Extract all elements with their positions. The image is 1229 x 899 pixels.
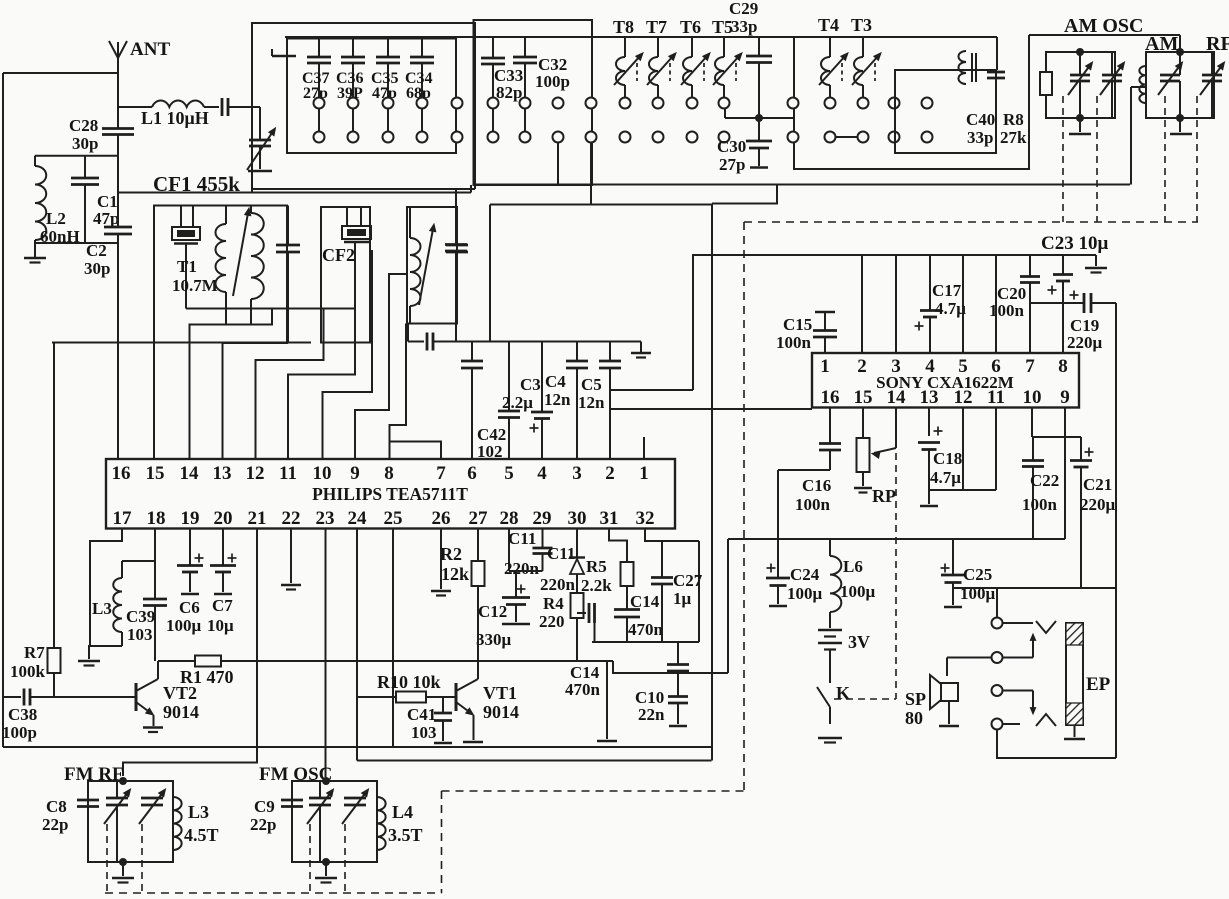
label R2 12k bbox=[440, 544, 469, 584]
svg-text:4.7μ: 4.7μ bbox=[930, 468, 961, 487]
svg-text:C18: C18 bbox=[933, 449, 962, 468]
inductor L2 bbox=[35, 156, 46, 243]
label C4 12n bbox=[544, 372, 571, 409]
amp pin top 2 bbox=[857, 356, 867, 377]
trimmer RF bbox=[1200, 52, 1225, 118]
pin number bottom 27 bbox=[469, 508, 489, 529]
svg-text:22: 22 bbox=[282, 508, 301, 529]
ground AM OSC bbox=[1069, 118, 1091, 134]
svg-text:26: 26 bbox=[432, 508, 451, 529]
wire long left mid rail bbox=[52, 342, 311, 344]
amp pin bottom 13 bbox=[920, 387, 939, 408]
capacitor C35 bbox=[376, 39, 400, 98]
trimmer AM OSC a bbox=[1068, 52, 1093, 118]
jack terminal 2 bbox=[992, 652, 1003, 663]
svg-text:27: 27 bbox=[469, 508, 489, 529]
capacitor C28 bbox=[102, 129, 134, 156]
svg-text:4.7μ: 4.7μ bbox=[935, 299, 966, 318]
switch contact row2 col 422 bbox=[417, 132, 428, 143]
inductor L4 FM bbox=[377, 797, 386, 850]
svg-text:C3: C3 bbox=[520, 375, 541, 394]
amp pin bottom 12 bbox=[954, 387, 973, 408]
svg-text:13: 13 bbox=[920, 387, 939, 408]
svg-text:C22: C22 bbox=[1030, 471, 1059, 490]
svg-text:16: 16 bbox=[821, 387, 840, 408]
ceramic resonator T1 bbox=[172, 206, 200, 309]
wire pin2s stub bbox=[861, 255, 863, 353]
label C34 68p bbox=[405, 70, 433, 102]
svg-text:100μ: 100μ bbox=[840, 582, 876, 601]
inductor L3 bbox=[113, 561, 122, 646]
svg-text:AM OSC: AM OSC bbox=[1064, 15, 1143, 37]
capacitor C37 bbox=[307, 39, 331, 98]
label C19 220u bbox=[1067, 316, 1103, 352]
wire contact stub 422 bbox=[421, 109, 423, 132]
svg-text:220n: 220n bbox=[504, 559, 540, 578]
label C8 22p bbox=[42, 797, 68, 834]
transistor VT2 bbox=[136, 661, 158, 726]
svg-text:10.7M: 10.7M bbox=[172, 276, 218, 295]
wire to pin11 bbox=[288, 309, 355, 460]
wire node 588 bbox=[953, 587, 1116, 589]
svg-text:R10 10k: R10 10k bbox=[377, 672, 441, 692]
wire top bus bbox=[285, 36, 997, 38]
capacitor C10 bbox=[668, 673, 688, 726]
label C41 103 bbox=[407, 705, 437, 742]
svg-text:19: 19 bbox=[181, 508, 200, 529]
label EP bbox=[1086, 674, 1111, 695]
dashed gang link RF bbox=[1196, 96, 1198, 222]
capacitor C34 bbox=[410, 39, 434, 98]
label AM bbox=[1145, 33, 1178, 55]
svg-text:80: 80 bbox=[905, 708, 923, 728]
svg-text:12: 12 bbox=[246, 463, 265, 484]
svg-text:C41: C41 bbox=[407, 705, 436, 724]
svg-text:C8: C8 bbox=[46, 797, 67, 816]
capacitor C27 bbox=[651, 541, 673, 642]
switch contact C33 row1 bbox=[488, 98, 499, 109]
svg-text:L6: L6 bbox=[843, 557, 863, 576]
switch contact row1 T6 bbox=[687, 98, 698, 109]
svg-text:15: 15 bbox=[854, 387, 873, 408]
wire pin23 to FM OSC bbox=[325, 529, 327, 778]
svg-text:100n: 100n bbox=[776, 333, 812, 352]
wire col558 down bbox=[557, 143, 559, 185]
capacitor C22 bbox=[1022, 437, 1044, 539]
pin number bottom 24 bbox=[348, 508, 368, 529]
inductor AM bar antenna coil bbox=[1139, 66, 1146, 103]
label C20 100n bbox=[989, 284, 1026, 320]
dashed gang FM RF b bbox=[141, 824, 143, 893]
svg-text:33p: 33p bbox=[967, 128, 993, 147]
svg-text:T6: T6 bbox=[680, 17, 701, 37]
svg-text:12n: 12n bbox=[578, 393, 605, 412]
capacitor C38 bbox=[3, 689, 54, 706]
wire pin2 to AM branch bbox=[610, 255, 693, 390]
resistor R4 bbox=[571, 593, 584, 661]
ground VT1 emitter bbox=[463, 741, 483, 744]
dashed gang bus horizontal bbox=[744, 221, 1198, 223]
wire pin9s stub bbox=[1064, 408, 1066, 540]
pin number bottom 23 bbox=[316, 508, 335, 529]
ground speaker bbox=[939, 725, 959, 728]
wire to pin15 bbox=[153, 343, 155, 460]
svg-text:T5: T5 bbox=[712, 17, 733, 37]
svg-text:31: 31 bbox=[600, 508, 619, 529]
capacitor on T1 box edge bbox=[276, 206, 300, 344]
wire pin11s stub bbox=[995, 408, 997, 491]
svg-text:C28: C28 bbox=[69, 116, 98, 135]
capacitor C14 first bbox=[667, 642, 689, 673]
svg-text:100μ: 100μ bbox=[787, 584, 823, 603]
svg-text:27k: 27k bbox=[1000, 128, 1027, 147]
svg-text:30p: 30p bbox=[84, 259, 110, 278]
switch contact row1 T5 bbox=[719, 98, 730, 109]
wire link y205 bbox=[490, 204, 712, 206]
svg-text:17: 17 bbox=[113, 508, 133, 529]
svg-text:220: 220 bbox=[539, 612, 565, 631]
svg-text:R5: R5 bbox=[586, 557, 607, 576]
label C7 10u bbox=[207, 596, 234, 635]
svg-text:L3: L3 bbox=[188, 802, 209, 822]
dashed gang mid horizontal bbox=[442, 790, 745, 792]
node AM top bbox=[1176, 48, 1184, 56]
discriminator coil bbox=[410, 207, 421, 324]
inductor L6 bbox=[830, 539, 841, 628]
svg-text:C24: C24 bbox=[790, 565, 820, 584]
svg-text:C23 10μ: C23 10μ bbox=[1041, 233, 1108, 254]
node FM OSC top bbox=[322, 777, 330, 785]
wire pin21 to FM RF bbox=[123, 529, 257, 777]
svg-text:2.2μ: 2.2μ bbox=[502, 393, 533, 412]
label C24 100u bbox=[787, 565, 823, 603]
svg-text:9014: 9014 bbox=[163, 702, 199, 722]
label SONY CXA1622M bbox=[876, 373, 1014, 392]
switch contact row1 col457 bbox=[452, 98, 463, 109]
wire row2 link T4-T3 bbox=[836, 136, 858, 138]
label K bbox=[836, 683, 850, 703]
pin number bottom 18 bbox=[147, 508, 166, 529]
transformer T1 secondary coil bbox=[251, 206, 264, 325]
svg-text:12: 12 bbox=[954, 387, 973, 408]
wire to pin10 bbox=[323, 250, 373, 459]
label C11 first bbox=[508, 529, 536, 548]
label L4 3.5T bbox=[388, 802, 423, 845]
label T4 bbox=[818, 15, 839, 35]
wire C33 stub bbox=[492, 109, 494, 132]
svg-text:T7: T7 bbox=[646, 17, 667, 37]
capacitor C24 bbox=[766, 539, 790, 606]
wire contact stub 319 bbox=[318, 109, 320, 132]
capacitor C21 bbox=[1070, 437, 1094, 588]
wire pin28 down bbox=[508, 529, 510, 572]
switch contact row1 col 422 bbox=[417, 98, 428, 109]
svg-text:C14: C14 bbox=[630, 592, 660, 611]
label R10 10k bbox=[377, 672, 441, 692]
label L3 4.5T bbox=[184, 802, 219, 845]
amp pin bottom 10 bbox=[1023, 387, 1042, 408]
svg-text:100n: 100n bbox=[1022, 495, 1058, 514]
pin number top 14 bbox=[180, 463, 200, 484]
capacitor C33 bbox=[481, 37, 505, 98]
label C37 27p bbox=[302, 70, 330, 102]
svg-text:330μ: 330μ bbox=[476, 630, 512, 649]
ground EP bbox=[1064, 725, 1085, 739]
wire col591 down bbox=[590, 143, 592, 205]
svg-text:30: 30 bbox=[568, 508, 587, 529]
pin number bottom 17 bbox=[113, 508, 133, 529]
label C6 100u bbox=[166, 598, 202, 635]
trimmer T5 bbox=[713, 37, 742, 98]
label T7 bbox=[646, 17, 667, 37]
amp pin top 3 bbox=[891, 356, 901, 377]
shield box CF2 bbox=[321, 207, 370, 343]
svg-text:C17: C17 bbox=[932, 281, 962, 300]
wire speaker to jack bbox=[947, 658, 992, 677]
svg-text:18: 18 bbox=[147, 508, 166, 529]
label PHILIPS TEA5711T bbox=[312, 484, 468, 504]
wire node 490 bbox=[929, 489, 996, 491]
switch contact row2 col927 bbox=[922, 132, 933, 143]
pin number bottom 22 bbox=[282, 508, 301, 529]
inductor L1 bbox=[118, 101, 219, 107]
svg-text:3V: 3V bbox=[848, 632, 870, 652]
pin number top 9 bbox=[350, 463, 360, 484]
svg-text:3.5T: 3.5T bbox=[388, 825, 423, 845]
dashed gang link AM OSC a bbox=[1062, 96, 1064, 222]
wire pin18 elbow bbox=[122, 529, 155, 562]
transformer T1 arrow bbox=[233, 208, 251, 296]
wire pin25 down bbox=[392, 529, 394, 748]
svg-text:10: 10 bbox=[1023, 387, 1042, 408]
svg-text:CF1 455k: CF1 455k bbox=[153, 172, 240, 196]
capacitor on discriminator box edge bbox=[446, 245, 468, 252]
label C14 first bbox=[565, 663, 601, 699]
label C3 2.2u bbox=[502, 375, 541, 412]
wire jack4 loop bbox=[997, 730, 1116, 759]
wire AM OSC top line bbox=[1029, 34, 1180, 36]
ground pin26 bbox=[431, 529, 451, 596]
capacitor C3 bbox=[530, 342, 554, 460]
tank box AM OSC bbox=[1046, 52, 1115, 118]
wire to pin14 bbox=[190, 309, 273, 460]
dashed gang vertical main bbox=[743, 222, 745, 791]
capacitor C32 bbox=[513, 37, 537, 98]
wire pin32 elbow bbox=[645, 529, 699, 643]
capacitor C19 bbox=[1070, 291, 1117, 314]
switch contact row2 T3 bbox=[858, 132, 869, 143]
wire jack2 arm bbox=[1003, 634, 1036, 658]
svg-text:220μ: 220μ bbox=[1067, 333, 1103, 352]
wire audio step bbox=[613, 661, 728, 673]
wire audio riser bbox=[727, 539, 729, 673]
node AM bottom bbox=[1176, 114, 1184, 122]
wire to pin9 bbox=[355, 274, 407, 459]
label T1 10.7M bbox=[172, 257, 218, 295]
trimmer T6 bbox=[681, 37, 710, 98]
capacitor C18 bbox=[918, 408, 943, 491]
svg-text:9014: 9014 bbox=[483, 702, 519, 722]
label VT1 9014 bbox=[483, 683, 519, 722]
pin number top 7 bbox=[436, 463, 446, 484]
pin number top 16 bbox=[112, 463, 131, 484]
svg-text:4: 4 bbox=[537, 463, 547, 484]
resistor R2 bbox=[472, 529, 485, 662]
svg-text:9: 9 bbox=[350, 463, 360, 484]
antenna ANT bbox=[109, 41, 127, 73]
svg-text:220μ: 220μ bbox=[1080, 495, 1116, 514]
pin number top 5 bbox=[504, 463, 514, 484]
wire box A drop chain bbox=[455, 189, 457, 244]
wire jack1 contact bbox=[1003, 622, 1034, 624]
wire pin12s stub bbox=[962, 408, 964, 491]
pin number top 1 bbox=[639, 463, 649, 484]
wire node 642 bbox=[592, 641, 699, 643]
svg-text:C6: C6 bbox=[179, 598, 200, 617]
switch contact row2 col591 bbox=[586, 132, 597, 143]
wire AM top entry bbox=[1179, 35, 1181, 52]
trimmer FM RF a bbox=[104, 781, 131, 862]
svg-text:C39: C39 bbox=[126, 607, 155, 626]
wire VT2 base bbox=[54, 696, 136, 698]
wire link x490 bbox=[489, 205, 491, 342]
pin number top 2 bbox=[605, 463, 615, 484]
capacitor C30 bbox=[746, 118, 772, 168]
capacitor C6 bbox=[177, 529, 204, 595]
pin number bottom 19 bbox=[181, 508, 200, 529]
svg-text:100k: 100k bbox=[10, 662, 46, 681]
pin number bottom 26 bbox=[432, 508, 451, 529]
svg-text:C9: C9 bbox=[254, 797, 275, 816]
svg-text:4: 4 bbox=[925, 356, 935, 377]
wire contact stub 388 bbox=[387, 109, 389, 132]
dashed K to RP bbox=[834, 698, 896, 700]
label C1 47p bbox=[93, 192, 119, 228]
op-amp U1 PHILIPS TEA5711T body bbox=[106, 459, 675, 529]
capacitor C40 bbox=[987, 72, 1005, 78]
amp pin top 4 bbox=[925, 356, 935, 377]
svg-text:47p: 47p bbox=[93, 209, 119, 228]
svg-text:7: 7 bbox=[1025, 356, 1035, 377]
wire C32 stub bbox=[524, 109, 526, 132]
pin number top 4 bbox=[537, 463, 547, 484]
box1 inner switch box bbox=[287, 39, 456, 154]
svg-text:K: K bbox=[836, 683, 850, 703]
resistor on pin31 bbox=[621, 562, 634, 609]
svg-text:33p: 33p bbox=[731, 17, 757, 36]
capacitor C4 bbox=[566, 342, 588, 460]
wire antenna to left bus bbox=[3, 72, 118, 74]
label C35 47p bbox=[371, 70, 399, 102]
battery 3V bbox=[818, 630, 842, 683]
jack terminal 4 bbox=[992, 719, 1003, 730]
jack terminal 1 bbox=[992, 618, 1003, 629]
resistor R7 bbox=[48, 343, 61, 698]
svg-text:25: 25 bbox=[384, 508, 403, 529]
capacitor series in rail bbox=[427, 333, 433, 351]
label AM OSC bbox=[1064, 15, 1143, 37]
transistor VT1 bbox=[456, 586, 478, 740]
svg-text:8: 8 bbox=[384, 463, 394, 484]
amp pin bottom 9 bbox=[1060, 387, 1070, 408]
label CF2 bbox=[322, 245, 355, 265]
svg-text:C4: C4 bbox=[545, 372, 566, 391]
amp pin top 5 bbox=[958, 356, 968, 377]
svg-text:7: 7 bbox=[436, 463, 446, 484]
label C27 1u bbox=[673, 571, 703, 608]
earphone EP body bbox=[1066, 623, 1083, 725]
pin number top 6 bbox=[467, 463, 477, 484]
capacitor C17 bbox=[915, 255, 941, 353]
switch contact row2 col 319 bbox=[314, 132, 325, 143]
svg-text:R8: R8 bbox=[1003, 110, 1024, 129]
svg-text:C30: C30 bbox=[717, 137, 746, 156]
label C28 30p bbox=[69, 116, 98, 153]
svg-text:1μ: 1μ bbox=[673, 589, 692, 608]
capacitor C9 bbox=[281, 800, 303, 807]
wire to pin16 bbox=[117, 243, 119, 459]
pin number bottom 21 bbox=[248, 508, 267, 529]
capacitor C11 bbox=[533, 529, 553, 572]
svg-text:SP: SP bbox=[905, 689, 926, 709]
capacitor C12 bbox=[502, 571, 530, 624]
shield box T1 bbox=[154, 206, 287, 343]
svg-text:470n: 470n bbox=[628, 620, 664, 639]
box B switch box bbox=[474, 20, 593, 185]
amp pin top 6 bbox=[991, 356, 1001, 377]
ground FM RF bbox=[112, 862, 134, 883]
ground C18 bbox=[920, 490, 938, 506]
switch contact row2 col 388 bbox=[383, 132, 394, 143]
switch contact row1 col591 bbox=[586, 98, 597, 109]
diode R5 bbox=[569, 529, 585, 594]
wire rail end ground bbox=[1085, 255, 1107, 273]
label C17 4.7u bbox=[932, 281, 966, 318]
ground under L2 bbox=[24, 243, 46, 263]
svg-text:3: 3 bbox=[891, 356, 901, 377]
label C42 102 bbox=[477, 425, 506, 461]
label C21 220u bbox=[1080, 475, 1116, 514]
label C10 22n bbox=[635, 688, 665, 724]
box switch group3 bbox=[794, 35, 1029, 169]
svg-text:28: 28 bbox=[500, 508, 519, 529]
wire C19 node bbox=[1030, 302, 1084, 304]
dashed gang link AM bbox=[1164, 96, 1166, 222]
label C38 100p bbox=[2, 705, 37, 742]
trimmer T4 bbox=[819, 37, 848, 98]
svg-text:C38: C38 bbox=[8, 705, 37, 724]
svg-text:27p: 27p bbox=[719, 155, 745, 174]
capacitor C25 bbox=[941, 539, 966, 588]
trimmer FM OSC a bbox=[307, 781, 334, 862]
svg-text:C27: C27 bbox=[673, 571, 703, 590]
resistor R1 bbox=[195, 656, 221, 667]
svg-text:CF2: CF2 bbox=[322, 245, 355, 265]
wire long link y185 bbox=[474, 184, 1130, 186]
svg-text:6: 6 bbox=[991, 356, 1001, 377]
label R7 100k bbox=[10, 643, 46, 681]
trimmer FM OSC b bbox=[342, 789, 369, 824]
wire x712 vertical bbox=[711, 205, 713, 761]
label C14 second bbox=[628, 592, 664, 639]
svg-text:16: 16 bbox=[112, 463, 131, 484]
label C12 330u bbox=[476, 602, 512, 649]
label T6 bbox=[680, 17, 701, 37]
trimmer AM bbox=[1158, 52, 1183, 118]
capacitor C29 bbox=[746, 37, 772, 118]
label FM OSC bbox=[259, 764, 332, 785]
svg-text:100p: 100p bbox=[2, 723, 37, 742]
